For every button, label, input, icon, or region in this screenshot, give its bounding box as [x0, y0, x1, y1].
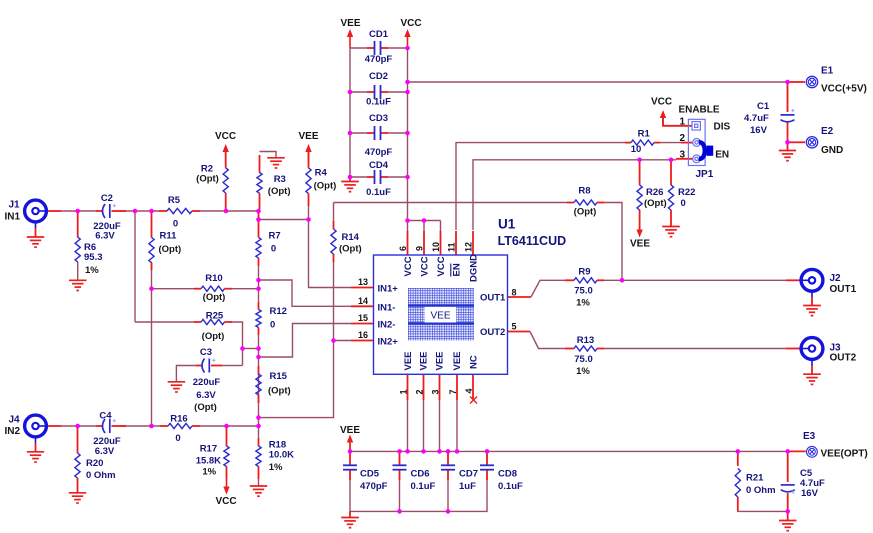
svg-text:NC: NC — [469, 355, 480, 369]
svg-text:220uF: 220uF — [193, 377, 221, 388]
power VCC arrow top bank — [404, 29, 410, 37]
wire EN net from pin11 up and right to R1 — [456, 143, 625, 230]
JP1 shunt on pins 2-3 — [699, 142, 705, 159]
resistor R12 — [256, 310, 261, 328]
svg-text:(Opt): (Opt) — [159, 244, 182, 255]
wire red lead R20 — [77, 427, 79, 453]
svg-text:1%: 1% — [269, 462, 283, 473]
svg-text:(Opt): (Opt) — [314, 181, 337, 192]
junction dots bottom rail lower — [397, 509, 402, 514]
wire red leads jumper pins 2 3 — [681, 142, 693, 144]
ground J1 — [27, 236, 44, 238]
wire VCC(+5V) top rail y82 to E1 — [408, 81, 788, 83]
wire red leads R15 — [258, 366, 260, 374]
svg-text:0: 0 — [173, 219, 178, 230]
svg-text:C2: C2 — [101, 193, 113, 204]
ground J3 — [803, 373, 821, 375]
power VEE R4 — [305, 144, 311, 152]
ground J2 — [803, 305, 821, 307]
svg-text:(Opt): (Opt) — [339, 244, 362, 255]
wire red leads C1 — [787, 82, 789, 112]
svg-text:16: 16 — [358, 330, 368, 340]
ground R22 — [662, 226, 680, 228]
JP1 pin2 round pad — [693, 139, 701, 147]
ground C3 — [168, 381, 186, 383]
svg-text:R15: R15 — [270, 371, 288, 382]
capacitor C2 — [103, 204, 106, 218]
svg-text:VCC: VCC — [400, 18, 421, 29]
wire pin14 notch IN1- — [259, 280, 352, 306]
ground R21 C5 branch — [779, 520, 797, 522]
wire J4 input row net IN2 — [61, 425, 96, 427]
wire red leads R18 to ground — [258, 438, 260, 446]
resistor R2 — [223, 168, 228, 193]
svg-text:R26: R26 — [646, 187, 663, 198]
wire red IC pin stubs top 6 9 10 11 12 — [407, 231, 409, 255]
svg-text:3: 3 — [431, 389, 441, 394]
svg-text:R21: R21 — [746, 473, 764, 484]
svg-text:VEE: VEE — [430, 311, 450, 322]
svg-text:VCC: VCC — [420, 256, 431, 276]
connector J1 — [25, 200, 47, 222]
svg-text:9: 9 — [415, 246, 425, 251]
U1 pin4 no-connect X — [470, 397, 477, 404]
resistor R4 — [306, 168, 311, 194]
svg-text:6.3V: 6.3V — [95, 446, 115, 457]
junction dots input ladder — [149, 286, 154, 291]
svg-text:R10: R10 — [205, 273, 222, 284]
wire red leads R9 — [565, 279, 574, 281]
wire OUT1 path pin8 to J2 — [531, 280, 565, 297]
svg-text:R4: R4 — [315, 168, 328, 179]
resistor R6 — [75, 237, 80, 262]
JP1 pin3 round pad — [693, 155, 701, 163]
resistor R17 — [224, 446, 229, 467]
op-amp U1 LT6411CUD box — [374, 255, 508, 374]
wire jumper pin3 net from pin12 DGND — [473, 160, 676, 230]
svg-text:J4: J4 — [9, 415, 21, 426]
svg-text:JP1: JP1 — [696, 169, 714, 180]
svg-text:R12: R12 — [270, 306, 287, 317]
svg-text:13: 13 — [358, 277, 368, 287]
wire red leads R14 — [333, 221, 335, 229]
svg-text:DIS: DIS — [714, 122, 731, 133]
resistor R10 — [201, 286, 225, 291]
wire red leads R16 — [160, 425, 168, 427]
terminal E2 — [806, 137, 817, 148]
svg-text:VEE: VEE — [403, 351, 414, 370]
wire pin16 stub IN2+ — [334, 340, 352, 342]
wire red lead J1 out — [47, 210, 61, 212]
wire red leads C5 — [787, 453, 789, 482]
connector J3 — [801, 338, 823, 360]
svg-text:4.7uF: 4.7uF — [744, 113, 769, 124]
wire red leads R7 — [258, 213, 260, 237]
svg-text:R25: R25 — [206, 311, 224, 322]
svg-text:VEE: VEE — [630, 239, 650, 250]
wire input ladder rail x258.5 — [258, 266, 260, 302]
svg-text:0: 0 — [271, 244, 276, 255]
wire R21 C5 branch — [737, 451, 739, 463]
svg-text:C4: C4 — [99, 411, 112, 422]
svg-text:2: 2 — [679, 133, 685, 144]
svg-text:14: 14 — [358, 296, 368, 306]
junction dots E1 E2 — [785, 80, 790, 85]
ground J4 — [27, 451, 44, 453]
ground top cap bank — [341, 181, 359, 183]
svg-text:470pF: 470pF — [365, 54, 393, 65]
capacitor CD8 — [480, 464, 494, 466]
svg-text:75.0: 75.0 — [574, 354, 593, 365]
wire VEE bottom rail y451.4 to E3 — [349, 443, 351, 451]
svg-text:0 Ohm: 0 Ohm — [86, 470, 116, 481]
svg-text:CD2: CD2 — [369, 71, 388, 82]
svg-text:1%: 1% — [85, 265, 99, 276]
svg-text:(Opt): (Opt) — [268, 386, 291, 397]
svg-text:12: 12 — [464, 242, 474, 252]
resistor R16 — [168, 423, 192, 428]
svg-text:DGND: DGND — [469, 254, 480, 282]
svg-text:0.1uF: 0.1uF — [498, 481, 523, 492]
wire R25 row y322 and drop x242.5 to C3 — [135, 321, 194, 323]
wire C1 vertical — [787, 84, 789, 112]
wire R10 row y288.7 — [152, 288, 195, 290]
svg-text:0 Ohm: 0 Ohm — [746, 485, 776, 496]
svg-text:CD1: CD1 — [369, 29, 389, 40]
wire VCC rail x407.5 from arrow to IC pins — [408, 48, 441, 221]
svg-text:OUT1: OUT1 — [830, 284, 857, 295]
resistor R11 — [149, 237, 154, 262]
resistor R7 — [256, 237, 261, 258]
wire red lead R6 top — [77, 211, 79, 237]
svg-text:OUT1: OUT1 — [480, 293, 506, 304]
svg-text:R1: R1 — [638, 128, 651, 139]
power VCC jumper — [660, 110, 666, 118]
svg-text:VEE: VEE — [340, 425, 360, 436]
wire red leads R26 — [639, 160, 641, 185]
svg-text:1: 1 — [399, 389, 409, 394]
svg-text:8: 8 — [512, 288, 517, 298]
power VCC R17 — [223, 487, 229, 495]
resistor R5 — [167, 208, 192, 213]
svg-text:R14: R14 — [342, 232, 360, 243]
wire red lead E2 ground — [787, 142, 789, 150]
wire red leads R11 — [151, 213, 153, 237]
capacitor C5 — [781, 484, 795, 486]
connector J4 — [25, 415, 47, 437]
svg-text:4: 4 — [464, 388, 474, 393]
svg-text:IN2-: IN2- — [378, 320, 396, 331]
wire red leads R2 — [225, 152, 227, 168]
svg-text:6: 6 — [398, 246, 408, 251]
svg-text:16V: 16V — [750, 125, 768, 136]
svg-text:R17: R17 — [200, 444, 217, 455]
wire red leads C4 — [96, 425, 103, 427]
svg-text:(Opt): (Opt) — [194, 402, 217, 413]
svg-text:E3: E3 — [803, 431, 816, 442]
wire red lead J3 in — [786, 348, 801, 350]
capacitor C4 — [103, 419, 106, 433]
wire red leads C3 — [196, 365, 202, 367]
svg-text:EN: EN — [452, 263, 463, 276]
svg-text:C3: C3 — [200, 347, 212, 358]
svg-text:VEE: VEE — [419, 351, 430, 370]
wire red leads C2 — [96, 210, 103, 212]
svg-text:6.3V: 6.3V — [95, 231, 115, 242]
wire pin15 notch IN2- — [259, 324, 352, 358]
svg-text:R20: R20 — [86, 458, 103, 469]
wire IC VEE pins 1 2 3 7 down to rail — [407, 399, 409, 451]
wire red leads R21 — [737, 452, 739, 466]
svg-text:11: 11 — [447, 242, 457, 252]
terminal E1 — [806, 76, 817, 87]
wire pins 6 9 10 verticals — [407, 221, 409, 233]
svg-text:16V: 16V — [801, 488, 819, 499]
svg-text:R11: R11 — [160, 231, 178, 242]
wire red leads R22 — [670, 160, 672, 185]
svg-text:VEE: VEE — [298, 131, 318, 142]
svg-text:C1: C1 — [757, 101, 770, 112]
wire bottom cap bank verticals and bottom rail — [350, 474, 487, 511]
resistor R18 — [256, 446, 261, 467]
svg-text:0: 0 — [681, 198, 686, 209]
svg-text:OUT2: OUT2 — [830, 353, 857, 364]
capacitor CD6 — [393, 464, 407, 466]
svg-text:5: 5 — [512, 322, 517, 332]
svg-text:0: 0 — [270, 320, 275, 331]
power VEE arrow top bank — [347, 29, 353, 37]
svg-text:J2: J2 — [830, 273, 842, 284]
wire red leads R17 and VCC arrow — [226, 427, 228, 446]
svg-text:3: 3 — [679, 150, 685, 161]
svg-text:R8: R8 — [578, 186, 590, 197]
capacitor bank top CD1 — [374, 41, 376, 55]
junction dots IN1 row — [75, 209, 80, 214]
jumper JP1 ENABLE — [688, 119, 705, 165]
capacitor CD2 — [374, 85, 376, 99]
capacitor C3 — [202, 359, 205, 373]
resistor R13 — [574, 346, 597, 351]
wire OUT2 path pin5 to J3 — [530, 332, 565, 349]
svg-text:E1: E1 — [821, 66, 834, 77]
capacitor bank bottom CD5 — [343, 464, 357, 466]
resistor R25 — [201, 319, 225, 324]
svg-text:R5: R5 — [168, 195, 181, 206]
svg-text:(Opt): (Opt) — [203, 292, 226, 303]
svg-text:CD5: CD5 — [360, 469, 380, 480]
svg-text:10: 10 — [431, 242, 441, 252]
resistor R21 — [735, 469, 740, 498]
ground R3 optional — [267, 157, 285, 159]
wire R4/IN1+ vertical x308.5 down to pin13 — [309, 220, 352, 288]
svg-text:15.8K: 15.8K — [196, 456, 221, 467]
svg-text:E2: E2 — [821, 126, 834, 137]
wire R8 row y202.5 to x622 — [334, 202, 568, 204]
resistor R15 — [256, 374, 261, 395]
svg-text:CD3: CD3 — [369, 113, 388, 124]
wire red IC pin stubs right 8 5 — [508, 296, 532, 298]
terminal E3 — [807, 446, 818, 457]
svg-text:(Opt): (Opt) — [574, 207, 597, 218]
wire red leads R25 — [194, 321, 201, 323]
svg-text:(Opt): (Opt) — [644, 198, 667, 209]
svg-text:6.3V: 6.3V — [196, 390, 216, 401]
wire IN1+ link row y219.5 — [259, 219, 309, 221]
svg-text:15: 15 — [358, 313, 368, 323]
resistor R1 — [631, 140, 654, 145]
wire red leads R10 — [194, 288, 201, 290]
svg-text:VCC(+5V): VCC(+5V) — [821, 84, 867, 95]
svg-text:IN1-: IN1- — [378, 303, 396, 314]
svg-text:R22: R22 — [678, 187, 695, 198]
svg-text:75.0: 75.0 — [574, 286, 593, 297]
capacitor CD3 — [374, 126, 376, 140]
wire red IC pin stubs left 13 14 15 16 — [351, 287, 374, 289]
svg-text:OUT2: OUT2 — [480, 327, 505, 338]
wire red leads R1 — [625, 142, 631, 144]
wire red leads R4 — [308, 152, 310, 168]
ground R20 — [69, 492, 86, 494]
svg-text:R7: R7 — [269, 231, 281, 242]
wire red leads R12 — [258, 302, 260, 310]
U1 pad VEE label — [425, 307, 457, 323]
junction dots VEE rail left bank — [348, 90, 353, 95]
wire red leads R3 and top hook — [259, 155, 261, 173]
svg-text:0.1uF: 0.1uF — [411, 481, 436, 492]
svg-text:VEE: VEE — [452, 351, 463, 370]
svg-text:VCC: VCC — [215, 496, 236, 507]
wire red leads R5 — [159, 210, 167, 212]
capacitor CD7 — [441, 464, 455, 466]
svg-text:1%: 1% — [202, 467, 216, 478]
U1 internal thermal pad hatch — [408, 288, 474, 341]
wire red leads bottom cap bank CD5-CD8 — [349, 451, 351, 465]
svg-text:ENABLE: ENABLE — [678, 105, 719, 116]
svg-text:2: 2 — [415, 389, 425, 394]
svg-text:(Opt): (Opt) — [196, 174, 219, 185]
resistor R8 — [574, 200, 597, 205]
svg-text:VCC: VCC — [651, 96, 672, 107]
svg-text:10: 10 — [631, 144, 642, 155]
resistor R9 — [574, 278, 597, 283]
svg-text:VCC: VCC — [403, 256, 414, 276]
svg-text:CD7: CD7 — [459, 469, 478, 480]
wire C3 row y365.5 to ground — [222, 365, 236, 367]
svg-text:0.1uF: 0.1uF — [366, 187, 391, 198]
svg-text:R3: R3 — [274, 174, 286, 185]
junction dot OUT1 — [620, 278, 625, 283]
svg-text:470pF: 470pF — [365, 147, 393, 158]
svg-text:VCC: VCC — [436, 256, 447, 276]
svg-text:R9: R9 — [578, 266, 590, 277]
svg-text:1%: 1% — [576, 366, 590, 377]
svg-text:EN: EN — [715, 150, 729, 161]
svg-text:1uF: 1uF — [459, 481, 476, 492]
svg-text:1: 1 — [679, 117, 685, 128]
svg-text:U1: U1 — [498, 217, 516, 232]
svg-text:95.3: 95.3 — [84, 252, 103, 263]
svg-text:R13: R13 — [577, 335, 594, 346]
junction dots VCC rail — [405, 46, 410, 51]
wire red stub CD4 to ground rail corner — [349, 177, 351, 181]
junction dots IN2 row — [75, 424, 80, 429]
ground R18 — [250, 485, 267, 487]
svg-text:IN1+: IN1+ — [378, 284, 399, 295]
svg-text:7: 7 — [448, 389, 458, 394]
wire red leads E1 E2 E3 — [790, 81, 806, 83]
capacitor C1 — [781, 114, 795, 116]
svg-text:0.1uF: 0.1uF — [366, 97, 391, 108]
ground bottom cap bank — [341, 517, 359, 519]
resistor R3 — [257, 173, 262, 194]
resistor R22 — [668, 185, 673, 210]
wire red leads R13 — [565, 348, 574, 350]
wire top cap bank CD1-CD4 row connections — [350, 47, 367, 49]
resistor R20 — [75, 453, 80, 478]
svg-text:GND: GND — [821, 145, 843, 156]
capacitor CD4 — [374, 170, 376, 184]
wire VEE rail x350 of decoupling bank — [349, 48, 351, 178]
svg-text:CD4: CD4 — [369, 160, 389, 171]
svg-text:10.0K: 10.0K — [269, 450, 294, 461]
wire red leads R8 — [567, 202, 574, 204]
svg-text:J1: J1 — [9, 200, 21, 211]
svg-text:VCC: VCC — [215, 131, 236, 142]
svg-text:LT6411CUD: LT6411CUD — [498, 234, 567, 248]
svg-text:VEE(OPT): VEE(OPT) — [821, 449, 868, 460]
svg-text:IN2: IN2 — [5, 426, 21, 437]
wire J1 input row net IN1 — [61, 210, 96, 212]
svg-text:R16: R16 — [170, 414, 187, 425]
svg-text:(Opt): (Opt) — [268, 186, 291, 197]
JP1 pin1 square pad — [692, 122, 700, 130]
power VEE arrow bottom bank — [347, 435, 353, 443]
wire red lead J4 out — [47, 425, 61, 427]
junction dots bottom VEE rail — [348, 449, 353, 454]
svg-text:CD8: CD8 — [498, 469, 517, 480]
wire C3 node link y348.5 — [243, 348, 259, 350]
wire red lead bottom rail ground — [349, 511, 351, 517]
resistor R14 — [331, 229, 336, 254]
svg-text:IN1: IN1 — [5, 212, 21, 223]
ground R6 — [69, 279, 87, 281]
resistor R26 — [637, 185, 642, 210]
svg-text:IN2+: IN2+ — [378, 337, 399, 348]
svg-text:0: 0 — [175, 433, 180, 444]
svg-text:(Opt): (Opt) — [202, 331, 225, 342]
svg-text:VEE: VEE — [340, 18, 360, 29]
wire red IC pin stubs bottom 1 2 3 7 4 — [407, 375, 409, 401]
svg-text:470pF: 470pF — [360, 481, 388, 492]
wire R11/R10 vertical x151.5 down to J4 row — [151, 262, 153, 426]
wire red lead VCC arrow to jumper pin1 — [663, 118, 692, 126]
svg-text:VEE: VEE — [435, 351, 446, 370]
ground E2 — [779, 150, 796, 152]
power VCC R2 — [223, 144, 229, 152]
wire R25 feed vertical x135 — [134, 211, 136, 322]
connector J2 — [801, 269, 823, 291]
wire R14 vertical x333.5 from R8 row to y417.6 — [333, 203, 335, 222]
junction dots jumper net — [637, 158, 642, 163]
power VEE R26 — [636, 230, 642, 238]
wire red lead R6 bottom to ground — [77, 262, 79, 280]
svg-text:1%: 1% — [576, 298, 590, 309]
wire red lead J2 in — [786, 279, 801, 281]
svg-text:CD6: CD6 — [411, 469, 430, 480]
